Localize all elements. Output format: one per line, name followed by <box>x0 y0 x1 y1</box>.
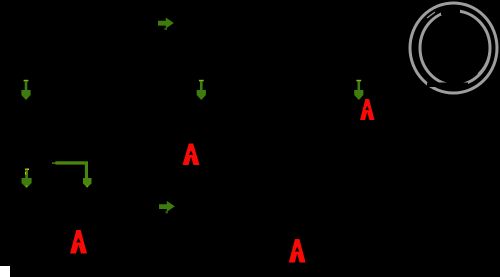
lamp L1 outer circle <box>410 3 497 93</box>
wire over lamp bottom <box>427 83 468 88</box>
ammeter label A2 (right) <box>360 99 375 120</box>
current arrow small left (down) <box>25 168 28 170</box>
ammeter label A4 (bottom middle) <box>289 239 306 263</box>
wire bottom horizontal <box>26 249 453 251</box>
current arrow top (right) <box>158 18 174 29</box>
current arrow right branch (down) <box>356 80 361 82</box>
lamp connector stroke <box>427 12 435 18</box>
current arrow bent (right then down) <box>52 162 57 163</box>
current arrow middle branch (down) <box>199 80 204 82</box>
ammeter label A3 (bottom left) <box>70 230 87 254</box>
wire lamp branch <box>452 93 454 250</box>
wire over lamp top <box>441 9 460 15</box>
ammeter label A1 (middle) <box>183 144 200 166</box>
wire top horizontal <box>26 21 410 23</box>
current arrow left branch (down) <box>24 80 29 82</box>
wire right vertical <box>358 22 360 250</box>
wire middle vertical <box>200 22 202 250</box>
lamp L1 inner circle <box>420 11 490 85</box>
current arrow lower middle (right) <box>159 201 175 212</box>
canvas corner patch <box>0 266 10 277</box>
wire left vertical <box>25 22 27 250</box>
